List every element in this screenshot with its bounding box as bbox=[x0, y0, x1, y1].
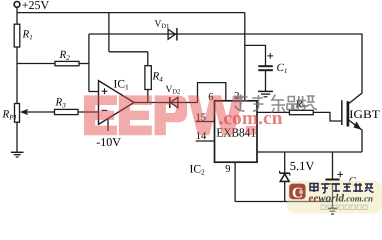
IC EXB841 box bbox=[215, 101, 258, 162]
resistor R3 bbox=[55, 109, 79, 114]
op-amp - sign bbox=[102, 109, 108, 111]
wire jog to pin6 bbox=[198, 83, 226, 103]
op-amp U1 triangle bbox=[99, 81, 135, 125]
op-amp + sign bbox=[102, 88, 108, 110]
svg-text:IGBT: IGBT bbox=[349, 109, 380, 121]
wire node vertical to +input bbox=[88, 34, 90, 92]
wire pin to R5 bbox=[257, 111, 289, 113]
svg-text:9: 9 bbox=[225, 164, 230, 175]
wire to op-amp +input bbox=[89, 91, 99, 93]
diode VD1 bbox=[168, 29, 175, 39]
wire op-amp -10V stub bbox=[107, 119, 109, 131]
wire clamp rail bbox=[89, 33, 362, 35]
wire R3 to -input bbox=[78, 111, 99, 113]
wire pin15 stub bbox=[196, 121, 215, 123]
ground bbox=[11, 151, 24, 153]
transistor IGBT bbox=[341, 100, 343, 125]
svg-text:+25V: +25V bbox=[22, 0, 50, 12]
wire R3 to RP1 wiper bbox=[26, 111, 55, 113]
watermark eeworld logo bbox=[285, 181, 382, 215]
wire top rail bbox=[17, 12, 245, 14]
wire pin9 bbox=[234, 162, 236, 201]
wire R5 to gate bbox=[313, 112, 342, 121]
resistor R2 bbox=[55, 61, 79, 65]
wire to R2 bbox=[17, 63, 55, 65]
resistor R5 bbox=[289, 110, 313, 114]
zener diode 5.1V bbox=[284, 152, 286, 173]
wire emitter rail bbox=[257, 151, 362, 153]
terminal +25V bbox=[14, 2, 20, 8]
wire bottom rail bbox=[235, 201, 332, 203]
svg-text:eeworld.com.cn: eeworld.com.cn bbox=[309, 193, 373, 205]
wire R1 to RP1 bbox=[16, 47, 18, 104]
IGBT emitter arrow bbox=[354, 122, 362, 130]
capacitor C2 bbox=[332, 152, 334, 179]
wire terminal to R1 bbox=[16, 7, 18, 24]
wire RP1 to ground bbox=[16, 122, 18, 152]
wire R2 to node bbox=[79, 63, 89, 65]
wire pull-up from +25V bbox=[109, 13, 148, 66]
wire op-amp output bbox=[134, 102, 198, 104]
RP1 wiper arrow bbox=[20, 109, 28, 115]
capacitor C1 bbox=[258, 65, 273, 67]
watermark EEPW bbox=[84, 95, 256, 135]
plus C2 bbox=[337, 172, 343, 178]
wire pin14 stub bbox=[196, 140, 215, 142]
wires showing through logo bbox=[285, 181, 340, 214]
wire C1 branch bbox=[245, 45, 266, 66]
svg-text:-10V: -10V bbox=[96, 135, 121, 149]
watermark hanzi band bbox=[233, 95, 317, 114]
wire R4 to output bbox=[147, 90, 149, 103]
plus C1 bbox=[267, 53, 343, 177]
resistor R4 bbox=[145, 66, 151, 90]
ground C1 bbox=[258, 90, 273, 92]
resistor R1 bbox=[14, 24, 20, 47]
diode VD2 bbox=[170, 97, 178, 107]
wire pin2 from top rail bbox=[244, 13, 246, 101]
svg-text:5.1V: 5.1V bbox=[290, 159, 315, 173]
potentiometer RP1 bbox=[15, 104, 20, 123]
ground C2 bbox=[332, 202, 334, 209]
